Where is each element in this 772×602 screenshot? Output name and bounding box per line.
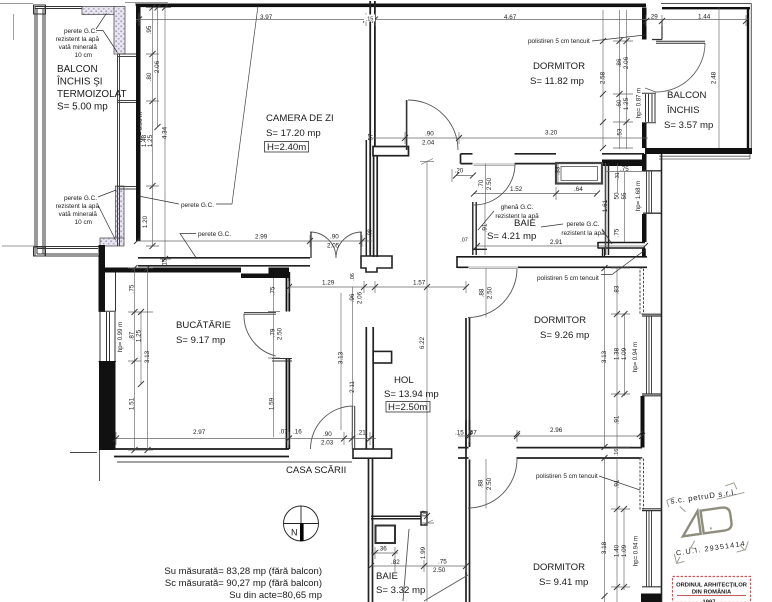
svg-text:.70: .70 <box>478 179 485 188</box>
svg-text:15: 15 <box>162 258 169 266</box>
wire dim long vertical hol <box>420 159 434 602</box>
svg-text:DORMITOR: DORMITOR <box>533 562 585 573</box>
node T-head wall at camera/hol/kitchen junction <box>361 256 392 272</box>
resistor hatched insulated wall top corner vertical <box>114 7 125 55</box>
svg-text:1.09: 1.09 <box>621 347 628 360</box>
svg-text:4.67: 4.67 <box>504 14 517 21</box>
node ticks dormitor1 <box>402 38 630 151</box>
svg-text:hp= 1.68 m: hp= 1.68 m <box>636 181 642 211</box>
wire dim dormitor3 top <box>458 430 642 442</box>
door baie jos leaf lines <box>403 529 409 601</box>
svg-text:10 cm: 10 cm <box>75 219 92 226</box>
svg-text:vată minerală: vată minerală <box>59 44 98 51</box>
svg-text:.20: .20 <box>455 169 464 175</box>
wire baie west wall <box>374 156 378 257</box>
node window between balcon and camera <box>117 54 136 246</box>
svg-text:DORMITOR: DORMITOR <box>534 315 586 326</box>
wire exterior east face line <box>661 154 663 602</box>
svg-text:.60: .60 <box>616 99 623 108</box>
svg-text:6.22: 6.22 <box>419 336 426 349</box>
svg-text:2.05: 2.05 <box>327 243 340 250</box>
svg-text:N: N <box>291 528 298 538</box>
node baie jos nub <box>421 512 427 525</box>
svg-text:S= 9.17 mp: S= 9.17 mp <box>176 335 225 346</box>
svg-text:hp= 0.94 m: hp= 0.94 m <box>633 342 639 372</box>
wire balcon dreapta bottom wall <box>645 148 752 154</box>
node exterior reference lines top-left <box>0 3 168 247</box>
svg-text:TERMOIZOLAT: TERMOIZOLAT <box>57 89 127 100</box>
node note perete GC balcon top <box>56 28 100 59</box>
door dormitor2 <box>468 269 517 318</box>
node baie jos north wall <box>371 516 421 519</box>
wire kitchen east wall upper <box>287 272 290 312</box>
wire baie south / dormitor2 north shared wall <box>457 256 647 258</box>
svg-text:polistiren 5 cm tencuit: polistiren 5 cm tencuit <box>536 473 598 480</box>
svg-text:2.99: 2.99 <box>255 234 268 241</box>
svg-text:.80: .80 <box>146 72 153 81</box>
svg-text:.07: .07 <box>276 269 282 278</box>
svg-text:1.20: 1.20 <box>142 215 149 228</box>
svg-text:s.c. petruD s.r.l.: s.c. petruD s.r.l. <box>670 487 737 505</box>
door balcon dreapta <box>645 43 705 92</box>
svg-text:CASA SCĂRII: CASA SCĂRII <box>286 465 346 476</box>
svg-text:.88: .88 <box>479 288 486 297</box>
wire dim baie jos <box>371 547 466 572</box>
door camera de zi double leaf right <box>336 232 362 258</box>
svg-text:S= 4.21 mp: S= 4.21 mp <box>487 231 536 242</box>
wire balcon dreapta top wall <box>661 3 752 5</box>
node ticks baie jos <box>368 550 469 569</box>
node dormitor3 window hp=0.94 <box>642 509 662 587</box>
wire casa scarii boundary lines <box>117 461 352 463</box>
wire dim casa scarii door <box>289 432 376 445</box>
svg-text:BUCĂTĂRIE: BUCĂTĂRIE <box>176 320 231 331</box>
svg-text:.75: .75 <box>129 284 136 293</box>
svg-text:1.09: 1.09 <box>621 544 628 557</box>
svg-text:ghenă G.C.: ghenă G.C. <box>501 204 534 211</box>
svg-text:3.20: 3.20 <box>545 130 558 137</box>
node balcon stanga window walls <box>35 6 100 256</box>
wire dormitor2 east wall polistiren <box>640 268 644 314</box>
svg-text:.75: .75 <box>614 228 621 237</box>
svg-text:BALCON: BALCON <box>57 64 98 75</box>
svg-text:2.50: 2.50 <box>486 177 493 190</box>
svg-text:DORMITOR: DORMITOR <box>533 61 585 72</box>
svg-text:.29: .29 <box>649 14 658 21</box>
wire leader diagonal camera <box>232 6 258 204</box>
resistor hatched insulated wall top (perete G.C. vata minerala) <box>82 7 116 15</box>
svg-text:1.99: 1.99 <box>420 546 427 559</box>
wire balcon dreapta west wall lower piece <box>642 123 647 148</box>
wire baie east exterior wall below window <box>642 214 647 242</box>
door baie <box>474 164 515 205</box>
wire dormitor3 north wall double <box>458 448 642 458</box>
svg-text:.15: .15 <box>366 17 374 23</box>
wire baie east exterior wall above window <box>642 154 647 171</box>
svg-text:.07: .07 <box>423 510 429 518</box>
svg-text:3.18: 3.18 <box>601 541 608 554</box>
svg-text:57: 57 <box>368 133 375 141</box>
node stamp ordinul arhitectilor (red) <box>673 577 751 602</box>
svg-text:3.13: 3.13 <box>338 351 345 364</box>
svg-text:3.97: 3.97 <box>260 14 273 21</box>
svg-text:.88: .88 <box>478 479 485 488</box>
svg-text:3.13: 3.13 <box>601 350 608 363</box>
svg-text:.21: .21 <box>357 430 366 437</box>
svg-text:hp= 0.90 m: hp= 0.90 m <box>138 112 144 142</box>
svg-text:1.61: 1.61 <box>602 199 609 212</box>
svg-text:rezistent la apă: rezistent la apă <box>561 230 605 237</box>
svg-text:hp= 0.87 m: hp= 0.87 m <box>637 88 643 118</box>
svg-text:.16: .16 <box>293 429 302 436</box>
wire baie east partition perete G.C. <box>606 163 609 255</box>
svg-text:S= 5.00 mp: S= 5.00 mp <box>57 102 108 113</box>
svg-text:.33: .33 <box>555 166 562 175</box>
svg-text:.16: .16 <box>614 449 620 457</box>
svg-text:.79: .79 <box>270 328 277 337</box>
node stamp logo D <box>701 507 733 534</box>
svg-text:1.29: 1.29 <box>322 280 335 287</box>
svg-text:2.50: 2.50 <box>433 567 446 574</box>
wire dim dormitor3 right chains <box>605 458 631 602</box>
wire dormitor3 east wall polistiren <box>640 458 644 509</box>
svg-text:.91: .91 <box>614 415 621 424</box>
wire dim camera bottom <box>137 235 372 247</box>
wire kitchen west exterior wall upper <box>99 245 106 312</box>
svg-text:perete G.C.: perete G.C. <box>181 202 214 209</box>
svg-text:ORDINUL ARHITECŢILOR: ORDINUL ARHITECŢILOR <box>676 583 748 589</box>
resistor hatched insulated wall mid bottom horiz <box>100 238 124 246</box>
node balcon dreapta window in west wall <box>642 93 656 123</box>
svg-text:2.04: 2.04 <box>422 140 435 147</box>
wire dim dormitor1 bottom <box>373 132 648 144</box>
resistor hatched insulated wall mid vertical <box>116 186 125 238</box>
svg-text:1.59: 1.59 <box>269 397 276 410</box>
svg-text:.36: .36 <box>378 546 387 553</box>
svg-text:S= 11.82 mp: S= 11.82 mp <box>530 76 584 87</box>
wire ghena G.C. duct walls <box>473 202 487 255</box>
svg-text:Su măsurată= 83,28 mp (fără ba: Su măsurată= 83,28 mp (fără balcon) <box>164 566 322 577</box>
svg-text:2.97: 2.97 <box>193 429 206 436</box>
node note ghena <box>495 204 539 220</box>
svg-text:.75: .75 <box>620 166 629 173</box>
svg-text:perete G.C.: perete G.C. <box>198 231 231 238</box>
svg-text:55: 55 <box>621 192 628 200</box>
svg-text:50: 50 <box>614 192 621 200</box>
wire dim dormitor1 right chains <box>603 10 633 149</box>
svg-text:2.06: 2.06 <box>623 56 630 69</box>
svg-text:perete G.C.: perete G.C. <box>64 28 97 35</box>
svg-text:Sc măsurată= 90,27 mp (fără ba: Sc măsurată= 90,27 mp (fără balcon) <box>165 578 322 589</box>
door dormitor3 <box>468 459 517 508</box>
svg-text:.53: .53 <box>617 128 624 137</box>
svg-text:1.44: 1.44 <box>698 14 711 21</box>
svg-text:.75: .75 <box>270 286 277 295</box>
svg-text:HOL: HOL <box>394 375 414 386</box>
svg-text:.08: .08 <box>368 229 374 237</box>
svg-text:ÎNCHIS ŞI: ÎNCHIS ŞI <box>56 77 103 88</box>
node balcon corner squares <box>34 5 46 14</box>
svg-text:2.58: 2.58 <box>600 71 607 84</box>
node ticks camera bottom <box>134 238 365 244</box>
svg-text:.64: .64 <box>574 186 583 193</box>
svg-text:H=2.50m: H=2.50m <box>388 402 427 413</box>
svg-text:CAMERA DE ZI: CAMERA DE ZI <box>266 113 334 124</box>
node ticks dormitor2 <box>466 265 643 450</box>
wire dim left kitchen chains <box>128 268 153 450</box>
svg-text:BALCON: BALCON <box>667 90 707 101</box>
wire kitchen west inner face line <box>115 272 117 312</box>
svg-text:rezistent la apă: rezistent la apă <box>495 213 539 220</box>
svg-text:.07: .07 <box>460 238 468 244</box>
svg-text:DIN ROMÂNIA: DIN ROMÂNIA <box>692 589 732 596</box>
wire dim hol horizontal <box>289 281 466 293</box>
svg-text:.87: .87 <box>129 331 136 340</box>
wire dim kitchen door chain <box>268 278 280 437</box>
svg-text:.31: .31 <box>615 172 621 180</box>
door camera de zi double leaf left <box>310 232 336 258</box>
svg-text:2.06: 2.06 <box>154 60 161 73</box>
wire dim left balcony chains <box>146 8 171 260</box>
node casa scarii cross bar <box>353 449 392 458</box>
wire dim top main <box>136 13 746 26</box>
node ticks baie <box>453 173 648 250</box>
svg-text:.90: .90 <box>425 131 434 138</box>
svg-text:.91: .91 <box>614 479 621 488</box>
svg-text:rezistent la apă: rezistent la apă <box>56 203 100 210</box>
wire dim vertical hol 3.13/2.11 <box>341 287 353 430</box>
svg-text:.06: .06 <box>350 273 356 281</box>
svg-text:.83: .83 <box>614 285 621 294</box>
svg-text:1.57: 1.57 <box>413 280 426 287</box>
wire dim balcon dreapta right <box>718 8 720 149</box>
wire kitchen north wall notch <box>241 274 270 279</box>
svg-text:.15: .15 <box>455 430 464 437</box>
node stamp logo 4 <box>680 511 701 536</box>
node ticks top dim <box>136 17 749 25</box>
node ticks hol <box>286 284 469 519</box>
wire dim dormitor2 right chains <box>605 268 631 447</box>
svg-text:3.13: 3.13 <box>144 350 151 363</box>
wire balcon dreapta west wall upper piece <box>642 8 647 40</box>
op-amp compass north symbol <box>284 506 319 541</box>
wire exterior right outside ledge lines <box>659 154 750 159</box>
wire kitchen north wall block right <box>269 268 290 279</box>
svg-text:S= 3.57 mp: S= 3.57 mp <box>664 120 713 131</box>
svg-text:.75: .75 <box>438 559 447 566</box>
svg-text:.07: .07 <box>468 430 477 437</box>
wire dim dormitor3 door <box>485 459 487 509</box>
wire camera south wall perete G.C. двойная <box>138 258 362 266</box>
svg-text:Su din acte=80,65 mp: Su din acte=80,65 mp <box>229 590 322 601</box>
wire dormitor2 west wall <box>466 318 470 602</box>
svg-text:10 cm: 10 cm <box>75 52 92 59</box>
svg-text:vată minerală: vată minerală <box>59 211 98 218</box>
svg-text:.90: .90 <box>323 431 332 438</box>
svg-text:1.25: 1.25 <box>147 134 154 147</box>
wire dormitor2 east wall below window <box>641 396 645 448</box>
svg-text:ÎNCHIS: ÎNCHIS <box>666 105 700 116</box>
svg-text:polistiren 5 cm tencuit: polistiren 5 cm tencuit <box>537 275 599 282</box>
svg-text:S= 13.94 mp: S= 13.94 mp <box>384 389 439 400</box>
svg-text:.95: .95 <box>146 25 153 34</box>
wire baie north wall <box>461 154 557 164</box>
wire balcon dreapta right wall <box>750 4 752 155</box>
svg-text:2.50: 2.50 <box>486 477 493 490</box>
door bucatarie <box>244 314 276 357</box>
node dim labels horizontal <box>364 15 375 22</box>
svg-text:2.50: 2.50 <box>487 286 494 299</box>
svg-text:.90: .90 <box>330 234 339 241</box>
node label balcon stanga <box>56 64 127 113</box>
svg-text:1.51: 1.51 <box>129 397 136 410</box>
svg-text:2.91: 2.91 <box>550 239 563 246</box>
svg-text:2.96: 2.96 <box>550 427 563 434</box>
node ticks kitchen bottom <box>113 436 373 442</box>
wire dim kitchen bottom <box>116 432 289 445</box>
svg-text:1.25: 1.25 <box>136 329 143 342</box>
node dormitor2 window hp=0.94 <box>642 314 662 396</box>
svg-text:polistiren 5 cm tencuit: polistiren 5 cm tencuit <box>528 38 590 45</box>
svg-text:.86: .86 <box>616 58 623 67</box>
svg-text:.82: .82 <box>391 559 400 566</box>
wire kitchen north wall <box>100 268 241 273</box>
svg-text:hp= 0.94 m: hp= 0.94 m <box>634 536 640 566</box>
door casa scarii <box>311 406 354 449</box>
node kitchen window hp=0.99 <box>99 311 117 361</box>
node ticks dormitor3 <box>466 433 645 599</box>
svg-text:1.40: 1.40 <box>614 544 621 557</box>
wire kitchen south wall <box>114 449 289 457</box>
svg-text:.07: .07 <box>279 429 288 436</box>
node stamp 4D petruD <box>666 481 753 563</box>
node baie window hp=1.68 <box>643 171 662 213</box>
svg-text:hp= 0.99 m: hp= 0.99 m <box>118 322 124 352</box>
node ticks kitchen left <box>132 265 151 453</box>
door dormitor1 (in south wall) <box>408 100 458 150</box>
capacitor bathtub <box>556 163 602 184</box>
wire camera west exterior wall <box>136 4 141 242</box>
svg-text:1.25: 1.25 <box>623 97 630 110</box>
svg-text:.96: .96 <box>349 293 356 302</box>
svg-text:S= 17.20 mp: S= 17.20 mp <box>266 128 321 139</box>
svg-text:2.03: 2.03 <box>321 440 334 447</box>
wire dim baie top <box>452 164 597 204</box>
wire wall west of baie jos <box>369 458 373 602</box>
wire dormitor3 south-east corner wall <box>641 594 661 602</box>
wire hol east wall piece between doors <box>466 420 470 447</box>
wire wall piece right of nook <box>642 249 646 258</box>
svg-text:perete G.C.: perete G.C. <box>566 221 599 228</box>
svg-text:1.38: 1.38 <box>614 347 621 360</box>
svg-text:2.06: 2.06 <box>357 291 364 304</box>
node note perete GC baie <box>561 221 605 237</box>
wire dim baie misc <box>477 163 646 255</box>
svg-text:2.50: 2.50 <box>277 327 284 340</box>
svg-text:perete G.C.: perete G.C. <box>64 195 97 202</box>
wire kitchen east wall lower + threshold <box>287 358 290 449</box>
svg-text:rezistent la apă: rezistent la apă <box>56 36 100 43</box>
svg-text:2.11: 2.11 <box>349 381 356 393</box>
svg-text:C.U.I. 29351414: C.U.I. 29351414 <box>675 539 746 558</box>
svg-text:S= 9.41 mp: S= 9.41 mp <box>539 577 588 588</box>
capacitor shower tray baie jos <box>376 526 396 544</box>
wire kitchen west exterior wall lower <box>99 361 116 450</box>
wire camera east wall double line <box>366 1 375 256</box>
node note perete GC balcon mid <box>56 195 100 226</box>
svg-text:1.52: 1.52 <box>510 186 523 193</box>
svg-text:S= 3.32 mp: S= 3.32 mp <box>376 585 425 596</box>
svg-text:4.34: 4.34 <box>162 126 169 139</box>
node ticks left chains <box>150 5 169 263</box>
svg-text:2.48: 2.48 <box>711 71 718 84</box>
wire baie nook wall east <box>598 242 645 249</box>
wire dim dormitor2 door <box>485 268 487 318</box>
svg-text:S= 9.26 mp: S= 9.26 mp <box>540 330 589 341</box>
wire dormitor south wall left piece <box>373 147 409 156</box>
wire hol vestibule wall <box>366 327 373 449</box>
node label suprafete <box>164 566 322 601</box>
wire north wall (exterior, camera+dormitor) <box>136 4 646 8</box>
node hol vestibule nub <box>373 351 391 363</box>
svg-text:BAIE: BAIE <box>376 571 398 582</box>
svg-text:H=2.40m: H=2.40m <box>267 142 306 153</box>
